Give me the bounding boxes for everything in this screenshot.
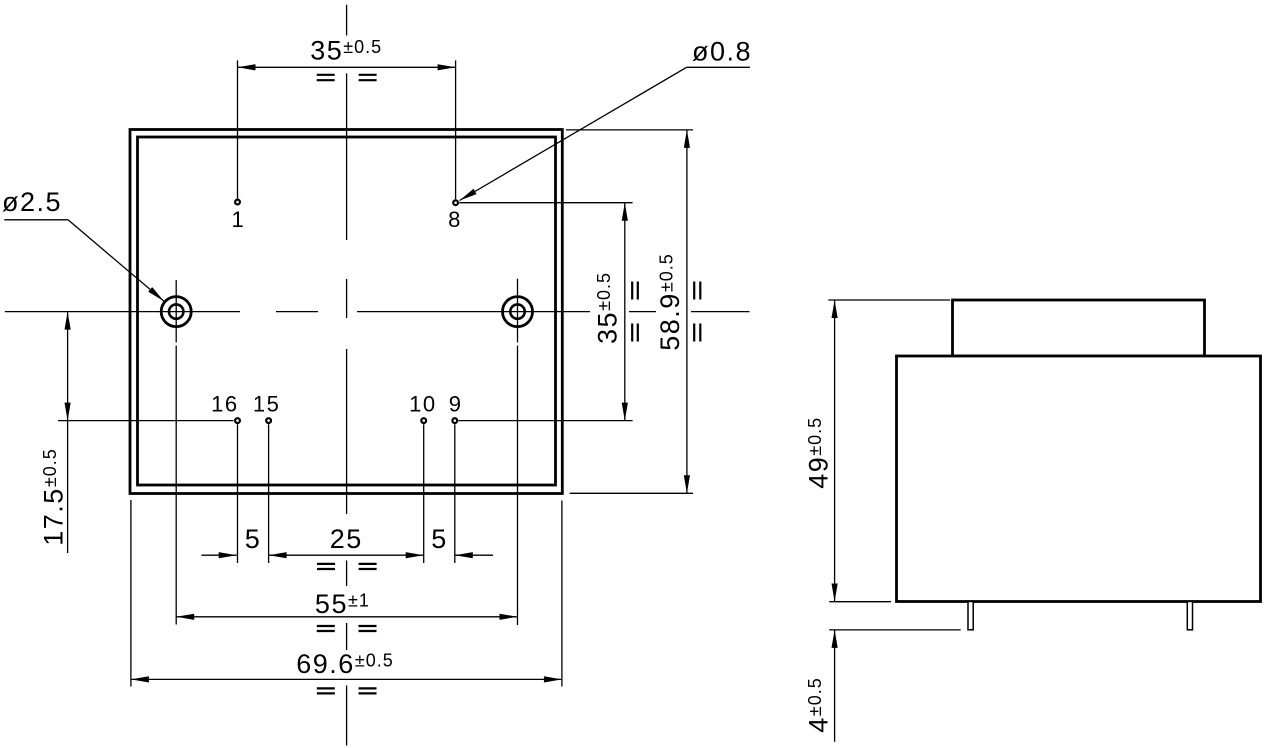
- inner case outline (top view): [138, 137, 556, 485]
- pin 8 extension line right: [459, 202, 632, 204]
- pin 16 extension line left: [58, 420, 234, 422]
- mounting hole right (ø2.5): [503, 297, 533, 327]
- right extension line for 69.6 dim: [561, 501, 563, 687]
- datum marks under 55 dim: [317, 626, 335, 631]
- svg-text:35±0.5: 35±0.5: [310, 36, 382, 66]
- side view: top extension line for 49 dim: [828, 299, 950, 301]
- side view: coil bump outline: [953, 300, 1205, 356]
- top edge extension line for 58.9 dim: [566, 129, 693, 131]
- datum marks under 69.6 dim: [317, 688, 335, 693]
- svg-text:10: 10: [409, 392, 436, 417]
- bottom edge extension line for 58.9 dim: [570, 492, 693, 494]
- pin 8 hole: [453, 200, 458, 205]
- dimension 25: line and arrows: [269, 554, 424, 556]
- dimension 55±1: line and arrows: [176, 616, 517, 618]
- label ø2.5 leader: [4, 219, 68, 221]
- mounting hole left vertical centerline / extension: [175, 280, 177, 343]
- label ø0.8 leader: [687, 66, 750, 68]
- side view: right pin: [1187, 602, 1192, 630]
- dimension 5 right: tail line and arrow: [455, 554, 493, 556]
- pin 10 extension line down: [423, 424, 425, 563]
- side view: main body outline: [897, 356, 1261, 602]
- dimension 4±0.5: tail line and arrow: [834, 630, 836, 742]
- pin 15 hole: [266, 418, 271, 423]
- pin 9 extension line down: [454, 424, 456, 563]
- svg-text:15: 15: [253, 392, 280, 417]
- side view: left pin: [968, 602, 973, 630]
- pin 9 extension line right: [459, 420, 633, 422]
- dimension 49±0.5: line and arrows: [834, 300, 836, 602]
- datum marks beside 58.9 dim: [694, 282, 700, 300]
- outer case outline (top view): [130, 130, 562, 494]
- svg-text:9: 9: [449, 392, 463, 417]
- left extension line for 69.6 dim: [130, 500, 132, 687]
- pin 15 extension line down: [268, 424, 270, 563]
- dimension 17.5±0.5: tail below: [67, 421, 69, 553]
- pin 16 hole: [235, 418, 240, 423]
- svg-text:4±0.5: 4±0.5: [804, 677, 834, 732]
- dimension 35±0.5 right: line and arrows: [624, 203, 626, 421]
- mounting hole left (ø2.5): [161, 297, 191, 327]
- pin 8 extension line up: [455, 60, 457, 199]
- datum marks beside 35 right dim: [632, 282, 638, 300]
- dimension 35±0.5 top: line and arrows: [238, 66, 456, 68]
- pin 1 hole: [235, 200, 240, 205]
- side view: bottom extension line for 49 dim: [829, 601, 891, 603]
- dimension 69.6±0.5: line and arrows: [131, 678, 562, 680]
- pin 9 hole: [452, 418, 457, 423]
- svg-text:35±0.5: 35±0.5: [593, 272, 623, 344]
- svg-text:58.9±0.5: 58.9±0.5: [655, 253, 685, 350]
- svg-text:5: 5: [245, 524, 262, 554]
- pin 16 extension line down: [237, 424, 239, 563]
- svg-text:8: 8: [448, 207, 462, 232]
- datum marks under 5/25/5 dims: [317, 564, 335, 569]
- vertical centerline: [346, 5, 348, 36]
- svg-text:5: 5: [431, 524, 448, 554]
- svg-text:ø2.5: ø2.5: [2, 187, 62, 217]
- dimension 17.5±0.5: line and arrows: [67, 312, 69, 421]
- svg-text:ø0.8: ø0.8: [692, 37, 752, 67]
- svg-text:69.6±0.5: 69.6±0.5: [296, 649, 393, 679]
- horizontal centerline: [5, 311, 240, 313]
- mounting hole right vertical centerline / extension: [517, 279, 519, 343]
- pin 1 extension line up: [237, 60, 239, 198]
- dimension 58.9±0.5: line and arrows: [686, 130, 688, 493]
- side view: pin-end extension line for 4 dim: [829, 629, 960, 631]
- svg-text:16: 16: [211, 392, 238, 417]
- datum marks under 35 dim: [317, 75, 335, 80]
- svg-text:49±0.5: 49±0.5: [804, 417, 834, 489]
- dimension 5 left: tail line and arrow: [201, 554, 236, 556]
- svg-text:55±1: 55±1: [315, 589, 370, 619]
- pin 10 hole: [421, 418, 426, 423]
- svg-text:25: 25: [330, 524, 363, 554]
- svg-text:17.5±0.5: 17.5±0.5: [39, 448, 69, 545]
- svg-text:1: 1: [232, 207, 246, 232]
